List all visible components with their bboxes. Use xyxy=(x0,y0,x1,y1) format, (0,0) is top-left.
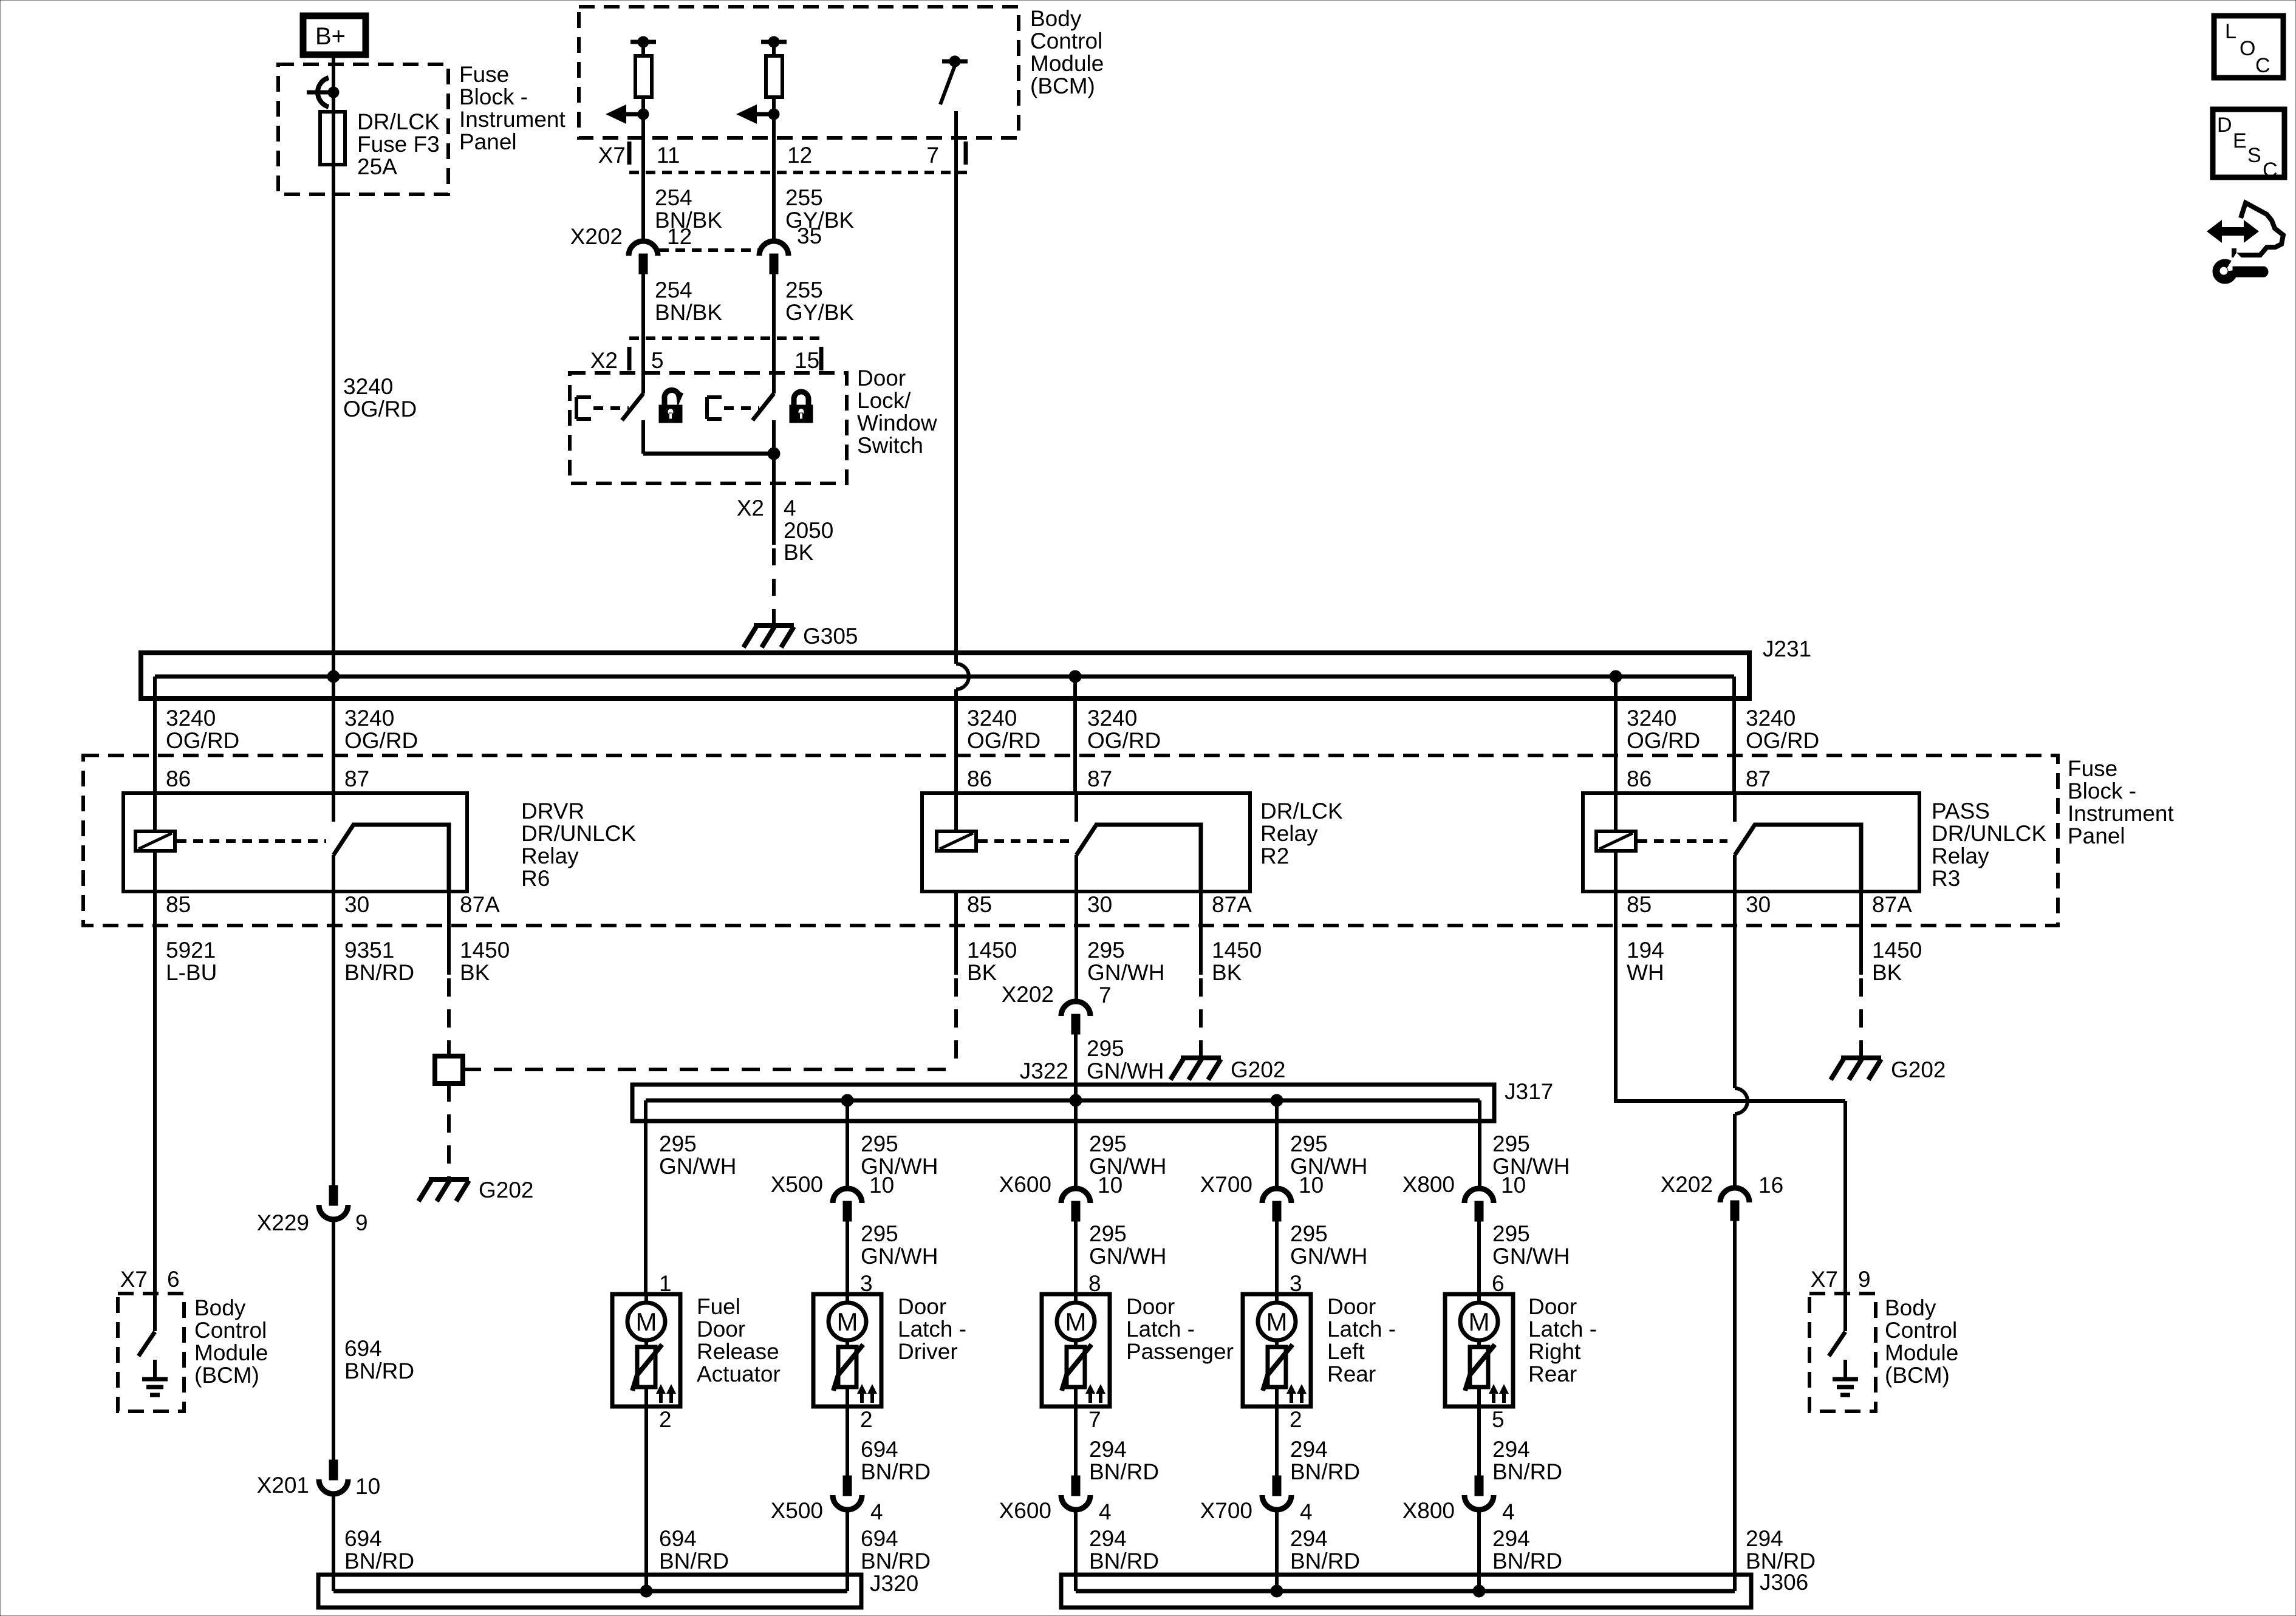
svg-text:4: 4 xyxy=(784,496,796,520)
svg-text:35: 35 xyxy=(797,223,822,248)
svg-text:DR/UNLCK: DR/UNLCK xyxy=(521,821,636,846)
connector X500 pin4 labels xyxy=(771,1498,883,1524)
svg-text:Control: Control xyxy=(1030,29,1102,53)
svg-text:Door: Door xyxy=(1528,1294,1577,1319)
BCM switch (bottom left) xyxy=(138,1294,155,1356)
motor M door latch passenger xyxy=(1042,1271,1110,1432)
svg-text:G202: G202 xyxy=(479,1178,534,1202)
svg-text:15: 15 xyxy=(794,348,819,373)
wire R6 coil-to-85 xyxy=(153,851,157,892)
svg-text:694: 694 xyxy=(861,1437,898,1462)
motor M fuel door release actuator xyxy=(612,1271,680,1432)
connector X800 pin4 labels xyxy=(1403,1498,1515,1524)
BCM label (bottom left) xyxy=(194,1295,268,1388)
svg-text:GN/WH: GN/WH xyxy=(659,1154,736,1179)
relay R3 PASS DR/UNLCK xyxy=(1583,793,1919,892)
ground G305 xyxy=(743,626,794,647)
pin 11 label xyxy=(657,143,680,168)
svg-text:294: 294 xyxy=(1290,1526,1328,1551)
svg-text:3240: 3240 xyxy=(1746,706,1795,731)
svg-text:OG/RD: OG/RD xyxy=(967,728,1040,753)
bus J306 wire xyxy=(1076,1589,1735,1594)
svg-text:85: 85 xyxy=(1627,892,1652,917)
svg-text:Control: Control xyxy=(1885,1318,1957,1343)
wire 294 BN/RD (to J306) xyxy=(1733,1221,1737,1591)
svg-text:295: 295 xyxy=(1290,1221,1328,1246)
svg-text:85: 85 xyxy=(166,892,191,917)
svg-text:694: 694 xyxy=(344,1336,382,1361)
svg-text:9: 9 xyxy=(355,1210,368,1235)
svg-text:Module: Module xyxy=(194,1340,268,1365)
svg-text:M: M xyxy=(1469,1307,1490,1336)
junction dot J320 fuel door xyxy=(640,1585,652,1597)
junction dot J306 right rear xyxy=(1473,1585,1485,1597)
svg-text:1: 1 xyxy=(659,1271,672,1296)
wire 294 BN/RD (R3-30) xyxy=(1735,892,1748,1188)
svg-text:Door: Door xyxy=(898,1294,946,1319)
svg-text:G202: G202 xyxy=(1231,1057,1286,1082)
icon DESC box xyxy=(2213,109,2284,182)
svg-text:J231: J231 xyxy=(1763,636,1811,661)
svg-text:GN/WH: GN/WH xyxy=(1089,1244,1166,1269)
svg-text:Latch -: Latch - xyxy=(898,1317,966,1342)
wire label 3240 OG/RD (B+ feed) xyxy=(343,374,417,421)
svg-text:2: 2 xyxy=(1290,1407,1302,1432)
connector X202 pin 12 xyxy=(629,241,658,274)
wire 294 BN/RD (left rear to bus) xyxy=(1275,1510,1279,1591)
svg-text:BN/RD: BN/RD xyxy=(1492,1459,1562,1484)
wire 1450 BK (R2-85) xyxy=(954,892,958,1069)
bus J320 wire xyxy=(333,1589,847,1594)
svg-text:Fuse: Fuse xyxy=(459,62,509,87)
wire label 294 BN/RD (passenger bus) xyxy=(1089,1526,1159,1573)
svg-text:194: 194 xyxy=(1627,938,1664,963)
connector X202 pin7 labels xyxy=(1002,982,1112,1007)
wire 295 GN/WH (R2-30) xyxy=(1075,892,1078,1001)
fuel door release actuator label xyxy=(697,1294,781,1386)
svg-text:295: 295 xyxy=(1290,1131,1328,1156)
wire label 3240 OG/RD (R6-87) xyxy=(344,706,418,753)
svg-text:X600: X600 xyxy=(999,1498,1051,1523)
svg-text:Passenger: Passenger xyxy=(1126,1339,1234,1364)
wire label 694 BN/RD (driver out) xyxy=(861,1437,931,1484)
wire label 295 GN/WH (driver lower) xyxy=(861,1221,938,1269)
svg-text:4: 4 xyxy=(1300,1499,1313,1524)
svg-text:PASS: PASS xyxy=(1932,799,1990,823)
svg-text:Fuse: Fuse xyxy=(2068,756,2117,781)
svg-text:30: 30 xyxy=(1087,892,1112,917)
svg-text:294: 294 xyxy=(1746,1526,1783,1551)
svg-text:X202: X202 xyxy=(1661,1172,1713,1197)
svg-text:Switch: Switch xyxy=(857,433,923,458)
svg-text:87: 87 xyxy=(344,766,369,791)
svg-text:DR/LCK: DR/LCK xyxy=(357,109,440,134)
svg-text:GN/WH: GN/WH xyxy=(1087,1059,1164,1083)
BCM label (top) xyxy=(1030,6,1104,98)
svg-text:BN/RD: BN/RD xyxy=(1290,1549,1360,1573)
svg-text:X7: X7 xyxy=(598,143,626,168)
connector X500 pin 10 xyxy=(833,1188,862,1221)
svg-text:Relay: Relay xyxy=(1260,821,1318,846)
wire 5921 L-BU xyxy=(153,892,157,1294)
svg-text:255: 255 xyxy=(785,278,823,302)
svg-text:3240: 3240 xyxy=(166,706,216,731)
wire label 295 GN/WH (left rear upper) xyxy=(1290,1131,1367,1179)
connector X202 pin16 labels xyxy=(1661,1172,1784,1198)
wire label 295 GN/WH (passenger lower) xyxy=(1089,1221,1166,1269)
svg-text:Door: Door xyxy=(697,1317,745,1342)
svg-text:8: 8 xyxy=(1088,1271,1101,1296)
svg-text:S: S xyxy=(2247,144,2261,167)
wire label 294 BN/RD (left rear out) xyxy=(1290,1437,1360,1484)
door latch left rear label xyxy=(1327,1294,1396,1386)
svg-text:87A: 87A xyxy=(1872,892,1912,917)
svg-text:M: M xyxy=(1266,1307,1288,1336)
connector X229 pin 9 xyxy=(319,1185,348,1219)
svg-text:J317: J317 xyxy=(1505,1079,1553,1104)
motor M door latch right rear xyxy=(1445,1271,1513,1432)
svg-text:6: 6 xyxy=(167,1267,180,1292)
svg-text:Relay: Relay xyxy=(521,844,579,868)
BCM switch (bottom right) xyxy=(1829,1294,1845,1356)
connector X2 label xyxy=(590,348,618,373)
pin labels R3 bottom xyxy=(1627,892,1912,917)
svg-text:Body: Body xyxy=(1885,1295,1936,1320)
icon vehicle outline xyxy=(2234,203,2283,255)
svg-text:X202: X202 xyxy=(570,224,623,249)
svg-text:X2: X2 xyxy=(590,348,618,373)
svg-text:BK: BK xyxy=(967,960,997,985)
ground G202 (middle) xyxy=(1170,1058,1221,1080)
bus J306 outline xyxy=(1061,1575,1751,1607)
connector X700 pin10 labels xyxy=(1200,1172,1324,1198)
junction dot J231 (R3-86) xyxy=(1610,670,1622,683)
wire label 1450 BK (R2-85) xyxy=(967,938,1017,985)
pin 7 label xyxy=(926,143,939,168)
connector X2 pin 4 labels xyxy=(737,496,796,520)
junction dot J306 left rear xyxy=(1271,1585,1283,1597)
wire splice to G202 (dashed) xyxy=(447,1083,451,1177)
connector X800 pin 4 xyxy=(1464,1476,1494,1510)
icon LOC box xyxy=(2214,16,2283,78)
svg-text:2: 2 xyxy=(659,1407,672,1432)
svg-text:Panel: Panel xyxy=(2068,823,2125,848)
svg-text:R6: R6 xyxy=(521,866,550,891)
BCM dashed box (top) xyxy=(579,7,1019,138)
svg-text:BN/RD: BN/RD xyxy=(344,960,414,985)
svg-text:86: 86 xyxy=(967,766,992,791)
wire label 1450 BK (R3-87A) xyxy=(1872,938,1922,985)
svg-text:BN/RD: BN/RD xyxy=(1089,1459,1159,1484)
svg-text:Door: Door xyxy=(1126,1294,1175,1319)
svg-text:87A: 87A xyxy=(1212,892,1252,917)
wire 254 BN/BK (lower) xyxy=(641,274,645,394)
svg-text:294: 294 xyxy=(1089,1437,1127,1462)
svg-text:E: E xyxy=(2233,129,2247,152)
svg-text:Body: Body xyxy=(194,1295,246,1320)
bus J306 label xyxy=(1760,1570,1808,1595)
wire label 254 BN/BK (upper) xyxy=(655,185,722,233)
connector X202 pin 16 xyxy=(1720,1188,1749,1221)
connector X201 labels xyxy=(257,1473,381,1499)
svg-text:OG/RD: OG/RD xyxy=(1087,728,1161,753)
wire switch2 to X2-4 xyxy=(768,420,780,545)
pin labels R2 bottom xyxy=(967,892,1252,917)
connector X600 pin4 labels xyxy=(999,1498,1112,1524)
svg-text:1450: 1450 xyxy=(1872,938,1922,963)
svg-text:30: 30 xyxy=(1746,892,1771,917)
wire R6-86 (3240 OG/RD) xyxy=(153,677,157,831)
connector X7 row (BCM top) xyxy=(629,141,968,172)
svg-text:294: 294 xyxy=(1492,1437,1530,1462)
wire label 3240 OG/RD (R2-86) xyxy=(967,706,1040,753)
svg-text:694: 694 xyxy=(861,1526,898,1551)
wire 2050 BK (dashed) xyxy=(772,548,776,623)
fuse block dashed box (top) xyxy=(278,64,448,194)
wire 195 D-BU/WH xyxy=(956,111,969,831)
wire R3-86 feed xyxy=(1614,677,1618,831)
wire 295 GN/WH (right rear drop) xyxy=(1478,1100,1481,1188)
svg-text:1450: 1450 xyxy=(1212,938,1262,963)
svg-text:G305: G305 xyxy=(803,624,858,649)
svg-text:25A: 25A xyxy=(357,154,397,179)
svg-text:Latch -: Latch - xyxy=(1528,1317,1597,1342)
wire 694 BN/RD (driver out) xyxy=(846,1406,849,1476)
BCM label (bottom right) xyxy=(1885,1295,1958,1388)
bus J320 label xyxy=(870,1571,918,1596)
wire label 294 BN/RD (left rear bus) xyxy=(1290,1526,1360,1573)
svg-text:DR/LCK: DR/LCK xyxy=(1260,799,1343,823)
svg-text:295: 295 xyxy=(1492,1131,1530,1156)
pin labels R6 bottom xyxy=(166,892,500,917)
BCM dashed box (bottom left) xyxy=(118,1294,184,1411)
wire 295 GN/WH (driver to latch) xyxy=(846,1221,849,1294)
svg-text:Block -: Block - xyxy=(459,84,528,109)
svg-text:254: 254 xyxy=(655,185,692,210)
svg-text:X500: X500 xyxy=(771,1498,823,1523)
wire 294 BN/RD (right rear to bus) xyxy=(1477,1510,1481,1591)
svg-text:OG/RD: OG/RD xyxy=(343,397,417,421)
svg-text:Fuse F3: Fuse F3 xyxy=(357,132,440,157)
svg-text:X229: X229 xyxy=(257,1210,309,1235)
bus J317 outline xyxy=(632,1085,1494,1121)
connector X202 label (top) xyxy=(570,224,623,249)
wire label 3240 OG/RD (R6-86) xyxy=(166,706,239,753)
wire label 295 GN/WH (right rear upper) xyxy=(1492,1131,1570,1179)
wire label 294 BN/RD (passenger out) xyxy=(1089,1437,1159,1484)
svg-text:O: O xyxy=(2240,37,2255,60)
svg-text:295: 295 xyxy=(1087,1036,1124,1061)
svg-text:OG/RD: OG/RD xyxy=(166,728,239,753)
switch 2 (lock) xyxy=(707,373,774,420)
svg-text:4: 4 xyxy=(870,1499,883,1524)
svg-text:254: 254 xyxy=(655,278,692,302)
connector X800 pin10 labels xyxy=(1403,1172,1526,1198)
wire label 295 GN/WH (R2-30) xyxy=(1087,938,1164,985)
svg-text:M: M xyxy=(837,1307,858,1336)
wire 694 BN/RD (mid) xyxy=(332,1220,335,1460)
svg-text:J306: J306 xyxy=(1760,1570,1808,1595)
splice junction xyxy=(435,1056,463,1083)
wire label 255 GY/BK (upper) xyxy=(785,185,854,233)
ground G202 (right) xyxy=(1831,1058,1881,1080)
ground G202 (left) xyxy=(419,1179,469,1201)
wire label 694 BN/RD (driver bus) xyxy=(861,1526,931,1573)
svg-text:12: 12 xyxy=(787,143,812,168)
svg-text:85: 85 xyxy=(967,892,992,917)
svg-text:Control: Control xyxy=(194,1318,267,1343)
junction dot J231 (R2-87) xyxy=(1069,670,1081,683)
wire label 295 GN/WH (passenger upper) xyxy=(1089,1131,1166,1179)
svg-text:M: M xyxy=(636,1307,657,1336)
svg-text:86: 86 xyxy=(166,766,191,791)
svg-text:Lock/: Lock/ xyxy=(857,388,911,413)
junction dot J317 X500 xyxy=(841,1094,853,1106)
wire 694 BN/RD (driver to bus) xyxy=(846,1510,849,1591)
svg-text:87: 87 xyxy=(1746,766,1771,791)
door latch passenger label xyxy=(1126,1294,1234,1364)
wire label 295 GN/WH (left rear lower) xyxy=(1290,1221,1367,1269)
svg-text:1450: 1450 xyxy=(967,938,1017,963)
svg-text:295: 295 xyxy=(861,1221,898,1246)
svg-text:Relay: Relay xyxy=(1932,844,1989,868)
svg-text:G202: G202 xyxy=(1891,1057,1946,1082)
connector X7 label xyxy=(598,143,626,168)
fuse DR/LCK F3 25A xyxy=(320,112,345,165)
bus J317 label xyxy=(1505,1079,1553,1104)
connector X700 pin 4 xyxy=(1262,1476,1291,1510)
wire 294 BN/RD (left rear out) xyxy=(1275,1406,1279,1476)
BCM driver output 1 (lock) xyxy=(606,36,656,124)
svg-text:Body: Body xyxy=(1030,6,1082,31)
svg-text:GN/WH: GN/WH xyxy=(1290,1244,1367,1269)
svg-text:OG/RD: OG/RD xyxy=(1746,728,1819,753)
relay R6 label xyxy=(521,799,636,891)
svg-text:Door: Door xyxy=(857,366,906,390)
svg-text:J322: J322 xyxy=(1020,1059,1068,1083)
wire 295 GN/WH (J322) xyxy=(1074,1034,1078,1100)
wire 194 WH xyxy=(1616,892,1845,1294)
switch 1 (unlock) xyxy=(576,373,643,420)
svg-text:R3: R3 xyxy=(1932,866,1960,891)
svg-text:3240: 3240 xyxy=(343,374,393,399)
connector X2 row xyxy=(629,338,823,370)
svg-text:295: 295 xyxy=(1492,1221,1530,1246)
svg-text:Instrument: Instrument xyxy=(459,107,566,132)
wire 295 GN/WH (passenger to latch) xyxy=(1074,1221,1078,1294)
svg-text:694: 694 xyxy=(344,1526,382,1551)
wire label 1450 BK (R6) xyxy=(460,938,510,985)
junction dot J317 X700 xyxy=(1271,1094,1283,1106)
svg-text:11: 11 xyxy=(657,143,680,168)
wire label 254 BN/BK (lower) xyxy=(655,278,722,325)
bus J231 outline xyxy=(141,653,1749,698)
wire label 194 WH xyxy=(1627,938,1664,985)
svg-text:X7: X7 xyxy=(120,1267,148,1292)
wire R3-87 feed (bus end) xyxy=(1732,677,1736,793)
svg-text:1450: 1450 xyxy=(460,938,510,963)
connector X202 pin 35 xyxy=(759,241,788,274)
wire 1450 BK (R6-87A) xyxy=(447,892,451,1056)
fuse element clip xyxy=(307,78,339,107)
svg-text:L-BU: L-BU xyxy=(166,960,217,985)
relay R2 DR/LCK xyxy=(922,793,1250,892)
svg-text:7: 7 xyxy=(926,143,939,168)
svg-text:DR/UNLCK: DR/UNLCK xyxy=(1932,821,2046,846)
svg-text:BN/RD: BN/RD xyxy=(1492,1549,1562,1573)
svg-text:BK: BK xyxy=(1212,960,1242,985)
fuse block dashed box (relays) xyxy=(83,755,2058,926)
connector X600 pin 4 xyxy=(1061,1476,1090,1510)
pin 5 label xyxy=(651,348,664,373)
wire 295 GN/WH (passenger drop) xyxy=(1074,1100,1078,1188)
wire splice to R2-85 (dashed) xyxy=(463,1068,956,1071)
motor M door latch left rear xyxy=(1243,1271,1311,1432)
svg-text:3240: 3240 xyxy=(967,706,1017,731)
connector X7 pin 6 labels xyxy=(120,1267,180,1292)
svg-text:7: 7 xyxy=(1099,983,1112,1007)
svg-text:BK: BK xyxy=(1872,960,1902,985)
bus J317 wire xyxy=(646,1099,1480,1103)
wire label 1450 BK (R2-87A) xyxy=(1212,938,1262,985)
svg-text:10: 10 xyxy=(1501,1173,1526,1198)
svg-text:X201: X201 xyxy=(257,1473,309,1498)
svg-text:X800: X800 xyxy=(1403,1498,1455,1523)
svg-text:X202: X202 xyxy=(1002,982,1054,1007)
svg-text:OG/RD: OG/RD xyxy=(1627,728,1700,753)
svg-text:DRVR: DRVR xyxy=(521,799,584,823)
wire label 294 BN/RD (right rear bus) xyxy=(1492,1526,1562,1573)
door lock/window switch dashed box xyxy=(570,373,847,483)
connector X500 pin 4 xyxy=(833,1476,862,1510)
door lock/window switch label xyxy=(857,366,937,458)
svg-text:4: 4 xyxy=(1099,1499,1112,1524)
svg-text:Rear: Rear xyxy=(1528,1362,1577,1386)
BCM internal ground (right) xyxy=(1833,1360,1858,1395)
svg-text:BK: BK xyxy=(784,540,814,565)
connector X202 pin 7 xyxy=(1061,1001,1090,1034)
wire BCM pin12 lead xyxy=(772,114,776,242)
connector X600 pin10 labels xyxy=(999,1172,1123,1198)
svg-text:BN/RD: BN/RD xyxy=(1290,1459,1360,1484)
svg-text:X700: X700 xyxy=(1200,1498,1252,1523)
wire label 3240 OG/RD (R2-87) xyxy=(1087,706,1161,753)
svg-text:9351: 9351 xyxy=(344,938,394,963)
svg-text:6: 6 xyxy=(1492,1271,1505,1296)
svg-text:3: 3 xyxy=(1290,1271,1302,1296)
wire 295 GN/WH (driver drop) xyxy=(846,1100,849,1188)
svg-text:5: 5 xyxy=(1492,1407,1505,1432)
svg-text:Window: Window xyxy=(857,411,937,435)
svg-text:295: 295 xyxy=(861,1131,898,1156)
svg-text:X500: X500 xyxy=(771,1172,823,1197)
connector X700 pin4 labels xyxy=(1200,1498,1313,1524)
svg-text:10: 10 xyxy=(1098,1173,1122,1198)
wire BCM pin11 lead xyxy=(641,114,645,242)
bus J322 label xyxy=(1020,1059,1068,1083)
bus J231 label xyxy=(1763,636,1811,661)
svg-text:Module: Module xyxy=(1885,1340,1958,1365)
icon wrench xyxy=(2213,253,2268,284)
svg-text:3240: 3240 xyxy=(1087,706,1137,731)
wire label 295 GN/WH (J322) xyxy=(1087,1036,1164,1083)
svg-text:Latch -: Latch - xyxy=(1327,1317,1396,1342)
ground G202 label (left) xyxy=(479,1178,534,1202)
wire 295 GN/WH (left rear drop) xyxy=(1275,1100,1279,1188)
relay R3 label xyxy=(1932,799,2046,891)
wire 295 GN/WH (left rear to latch) xyxy=(1275,1221,1279,1294)
wire 694 BN/RD (fuel door) xyxy=(644,1406,648,1591)
